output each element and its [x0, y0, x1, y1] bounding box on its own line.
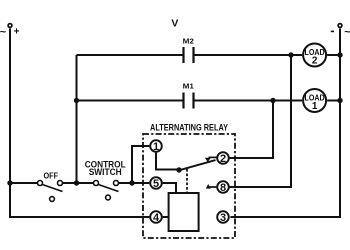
wire pin 5 to coil	[163, 183, 176, 193]
svg-text:M2: M2	[183, 36, 194, 45]
wire pin 1 to pivot	[156, 153, 179, 170]
wire control row from left line to OFF switch	[10, 182, 38, 184]
wire right vertical down to pin 3	[230, 29, 340, 218]
pin 1	[150, 140, 162, 153]
svg-text:4: 4	[153, 212, 160, 224]
junction dot M2 row / pin8 riser	[288, 52, 293, 57]
wire between OFF and motor-branch junction	[63, 182, 94, 184]
wire control switch to relay pin 5	[119, 182, 150, 184]
svg-text:ALTERNATING RELAY: ALTERNATING RELAY	[150, 123, 228, 133]
svg-text:1: 1	[312, 101, 318, 112]
wire M1 row right to LOAD1	[195, 100, 303, 102]
junction dot motor branch / control row	[74, 180, 79, 185]
svg-text:3: 3	[220, 212, 226, 224]
wire LOAD1 to right line	[327, 100, 340, 102]
junction dot left line / control row	[7, 180, 12, 185]
svg-text:SWITCH: SWITCH	[89, 167, 122, 177]
svg-text:2: 2	[312, 56, 318, 67]
relay coil	[169, 193, 199, 231]
pin 4	[150, 211, 162, 224]
pin 8	[217, 181, 229, 194]
svg-text:2: 2	[220, 153, 226, 165]
terminal -~ top right	[331, 24, 350, 39]
mechanical link dashed	[186, 169, 188, 193]
load LOAD2	[303, 44, 326, 67]
wire M1 row left	[77, 100, 183, 102]
relay dashed box	[143, 134, 235, 238]
contact M2	[183, 36, 194, 63]
svg-text:M1: M1	[183, 82, 195, 91]
pin 5	[150, 177, 162, 190]
wire M2 row right to LOAD2	[195, 54, 303, 56]
switch OFF	[38, 171, 63, 202]
wire pin 2 up to M1 row	[229, 101, 273, 159]
svg-text:8: 8	[220, 182, 226, 194]
svg-text:V: V	[171, 19, 178, 30]
contact arrow at pin 2	[205, 157, 217, 162]
terminal ~+ top left	[0, 24, 20, 39]
junction dot LOAD1 / right line	[337, 98, 342, 103]
svg-text:~: ~	[0, 27, 7, 39]
svg-text:~: ~	[344, 27, 350, 39]
wire branch up to pin 1	[132, 146, 149, 183]
switch CONTROL SWITCH	[85, 160, 127, 200]
load LOAD1	[303, 89, 326, 112]
wire motor branch vertical	[76, 55, 78, 183]
junction dot motor branch / M1 row	[74, 98, 79, 103]
pin 3	[217, 211, 229, 224]
svg-text:+: +	[14, 26, 20, 37]
wire left vertical from + terminal down to bottom row	[10, 29, 149, 218]
wire pin 8 up to M2 row	[229, 55, 291, 187]
junction dot M1 row / pin2 riser	[270, 98, 275, 103]
contact arrow at pin 8	[206, 184, 217, 189]
svg-text:5: 5	[153, 178, 159, 190]
svg-text:1: 1	[153, 141, 159, 153]
pivot dot	[176, 167, 181, 172]
wire LOAD2 to right line	[327, 54, 340, 56]
wire M2 row left	[77, 54, 183, 56]
contact M1	[183, 82, 195, 109]
junction dot pin1 branch / control row	[129, 180, 134, 185]
junction dot LOAD2 / right line	[337, 52, 342, 57]
wire pin 4 to coil	[163, 216, 169, 218]
pin 2	[217, 152, 229, 165]
svg-text:OFF: OFF	[44, 171, 59, 181]
relay blade	[179, 160, 216, 170]
